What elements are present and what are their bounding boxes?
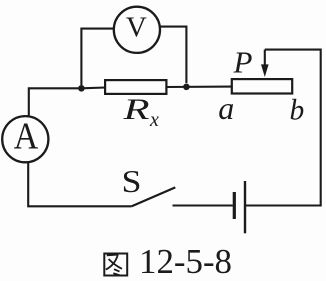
svg-text:R: R xyxy=(122,93,149,126)
svg-text:a: a xyxy=(218,90,234,126)
svg-text:12-5-8: 12-5-8 xyxy=(139,242,232,281)
svg-text:S: S xyxy=(122,163,142,199)
svg-text:P: P xyxy=(233,45,253,80)
svg-text:A: A xyxy=(14,116,39,158)
svg-text:x: x xyxy=(149,109,159,131)
svg-text:b: b xyxy=(290,95,305,127)
svg-text:V: V xyxy=(126,11,147,43)
